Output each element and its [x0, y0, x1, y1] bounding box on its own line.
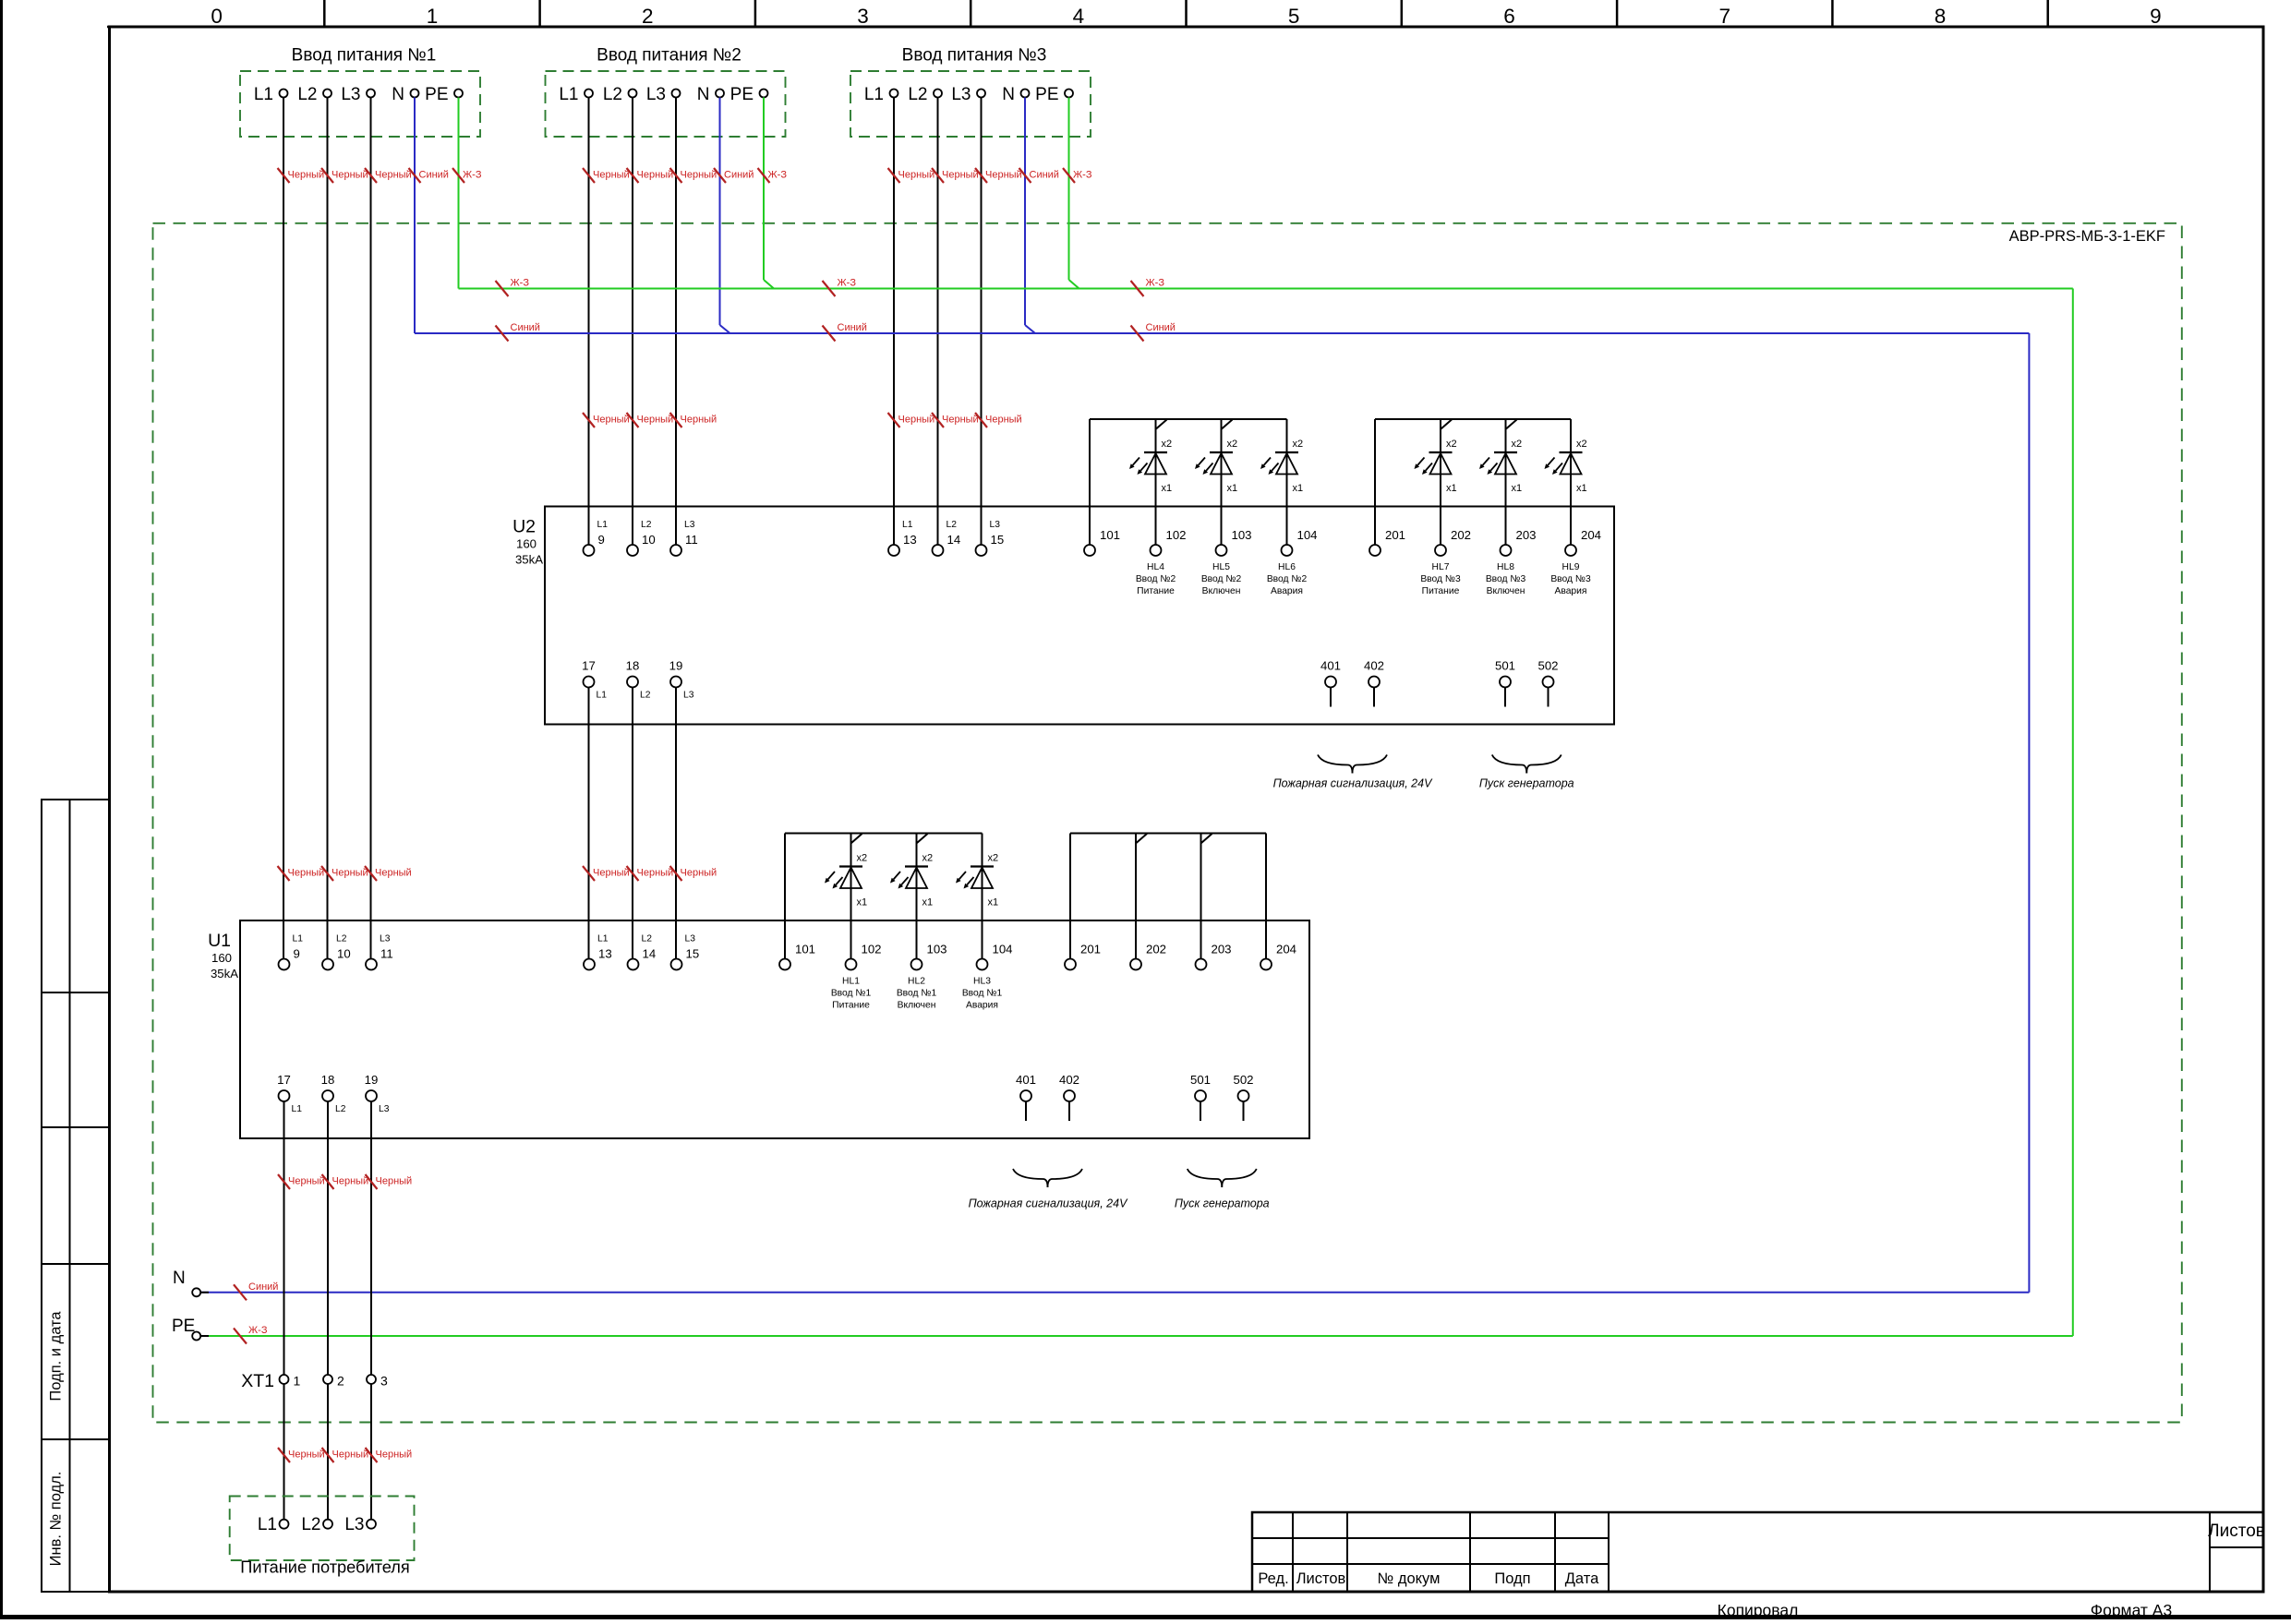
U1 pin 17 terminal	[279, 1090, 290, 1101]
node N terminal	[192, 1288, 200, 1296]
wire PE bus bottom horizontal (green)	[200, 1335, 2073, 1337]
U1 pin 10 terminal	[322, 959, 333, 970]
svg-text:Ж-З: Ж-З	[248, 1325, 268, 1336]
svg-text:PE: PE	[1035, 85, 1058, 104]
U1 pin 104 terminal	[977, 959, 988, 970]
U1 pin 501 terminal	[1195, 1090, 1206, 1101]
input 3 terminal PE	[1065, 90, 1073, 98]
U2 wire 203 to rail	[1505, 419, 1507, 545]
U2 pin 204 terminal	[1565, 545, 1576, 556]
left stamp label Подп. и дата	[48, 1311, 65, 1401]
U2 junction jog 103	[1222, 420, 1233, 429]
U2 pin 402 terminal	[1369, 677, 1380, 688]
svg-text:18: 18	[626, 659, 640, 673]
U2 pin 10 terminal	[627, 545, 638, 556]
U1 pin 13 terminal	[584, 959, 595, 970]
svg-text:ХТ1: ХТ1	[241, 1371, 274, 1391]
svg-text:Авария: Авария	[966, 1001, 998, 1011]
consumer terminal L3	[367, 1520, 376, 1529]
svg-text:Листов: Листов	[2208, 1522, 2265, 1541]
svg-text:14: 14	[947, 533, 961, 547]
svg-text:19: 19	[365, 1073, 379, 1087]
svg-text:U1: U1	[208, 931, 231, 951]
wire ввод1 L2 to U1:10	[327, 98, 329, 959]
svg-text:Черный: Черный	[332, 170, 368, 181]
U2 pin 14 terminal	[933, 545, 944, 556]
svg-text:13: 13	[598, 947, 612, 961]
U1 brace generator start terminals	[1188, 1169, 1223, 1187]
svg-text:5: 5	[1288, 5, 1300, 28]
svg-text:Черный: Черный	[681, 415, 717, 426]
LED HL3	[956, 834, 998, 908]
svg-text:Включен: Включен	[1202, 586, 1241, 596]
svg-text:Черный: Черный	[637, 415, 674, 426]
input 1 terminal L2	[323, 90, 332, 98]
svg-text:17: 17	[277, 1073, 291, 1087]
svg-text:Ж-З: Ж-З	[463, 170, 482, 181]
input group 3 dashed box	[850, 71, 1091, 137]
svg-text:102: 102	[862, 943, 882, 956]
U1 LED rail 201-204	[1070, 833, 1266, 835]
wire colour label Черный to consumer L2	[322, 1448, 334, 1462]
title block vertical divider Листов cell	[2209, 1512, 2211, 1592]
svg-text:Черный: Черный	[288, 1450, 325, 1461]
svg-text:L2: L2	[297, 85, 317, 104]
svg-text:502: 502	[1233, 1073, 1253, 1087]
svg-text:203: 203	[1516, 528, 1537, 542]
svg-text:4: 4	[1073, 5, 1085, 28]
svg-text:L3: L3	[685, 934, 696, 944]
svg-text:Ввод №2: Ввод №2	[1136, 574, 1176, 584]
svg-text:11: 11	[380, 947, 393, 961]
svg-text:HL2: HL2	[908, 977, 925, 987]
svg-text:Черный: Черный	[332, 1176, 369, 1187]
svg-text:Листов: Листов	[1296, 1570, 1346, 1587]
svg-text:Ввод №3: Ввод №3	[1550, 574, 1591, 584]
svg-text:Питание: Питание	[832, 1001, 870, 1011]
ruler tick 8	[1831, 0, 1834, 27]
U2 pin 19 terminal	[670, 677, 681, 688]
wire colour label Черный to consumer L1	[278, 1448, 290, 1462]
wire N ввод3 (blue) down	[1024, 98, 1026, 326]
svg-text:Синий: Синий	[838, 322, 867, 333]
input 2 terminal L1	[585, 90, 593, 98]
svg-text:Ввод №3: Ввод №3	[1486, 574, 1526, 584]
wire ввод2 L3 to U2:11	[675, 98, 677, 546]
wire colour label Черный ввод2 L2 (above U2)	[627, 413, 639, 427]
svg-text:402: 402	[1059, 1073, 1079, 1087]
svg-text:Включен: Включен	[1487, 586, 1525, 596]
svg-text:PE: PE	[425, 85, 448, 104]
U1 wire 202 to rail	[1135, 834, 1137, 959]
U2 pin 101 terminal	[1084, 545, 1095, 556]
svg-text:x1: x1	[1293, 483, 1304, 494]
svg-text:11: 11	[685, 533, 698, 547]
U1 junction jog 102	[851, 834, 862, 843]
wire N bus right vertical (blue)	[2028, 333, 2030, 1293]
svg-text:18: 18	[321, 1073, 335, 1087]
U1 pin 18 terminal	[322, 1090, 333, 1101]
wire U2:17 to U1:13	[588, 688, 590, 959]
wire PE bus top horizontal (green)	[459, 288, 2073, 290]
U1 pin 11 terminal	[366, 959, 377, 970]
svg-text:L1: L1	[292, 1104, 303, 1114]
U1 wire 203 to rail	[1200, 834, 1202, 959]
wire XT1:1 to consumer L1	[283, 1384, 285, 1520]
wire colour label Черный ввод3 L1	[888, 168, 900, 183]
svg-text:Ввод питания №2: Ввод питания №2	[597, 46, 742, 66]
wire colour label Черный ввод1 L2	[321, 168, 333, 183]
wire colour label Синий ввод3 N	[1019, 168, 1031, 183]
input 3 terminal L1	[890, 90, 898, 98]
svg-text:L2: L2	[641, 520, 652, 530]
svg-text:Включен: Включен	[898, 1001, 936, 1011]
ruler tick 6	[1401, 0, 1404, 27]
svg-text:L3: L3	[684, 520, 695, 530]
U2 pin 401 stub wire	[1330, 688, 1332, 707]
svg-text:Черный: Черный	[332, 868, 368, 879]
U2 wire 103 to rail	[1221, 419, 1223, 545]
title block horizontal divider right	[2210, 1546, 2263, 1548]
svg-text:x2: x2	[1293, 439, 1304, 450]
input 1 terminal PE	[454, 90, 463, 98]
svg-text:x1: x1	[922, 897, 934, 908]
svg-text:501: 501	[1190, 1073, 1211, 1087]
input 2 terminal N	[716, 90, 724, 98]
svg-text:x2: x2	[1576, 439, 1587, 450]
svg-text:0: 0	[211, 5, 223, 28]
left stamp cell divider 3	[42, 1263, 109, 1265]
U2 junction jog 203	[1506, 420, 1517, 429]
svg-text:Черный: Черный	[288, 1176, 325, 1187]
wire PE ввод2 (green) down	[763, 98, 765, 281]
U1 pin 501 stub wire	[1200, 1101, 1201, 1121]
svg-text:203: 203	[1212, 943, 1232, 956]
U2 pin 15 terminal	[976, 545, 987, 556]
U1 pin 102 terminal	[846, 959, 857, 970]
svg-text:Питание потребителя: Питание потребителя	[240, 1558, 409, 1577]
U1 wire 201 to rail	[1069, 834, 1071, 959]
LED HL8	[1479, 419, 1522, 494]
svg-text:N: N	[173, 1269, 186, 1288]
U2 pin 502 stub wire	[1548, 688, 1549, 707]
svg-text:Черный: Черный	[593, 170, 630, 181]
svg-text:17: 17	[582, 659, 596, 673]
svg-text:Черный: Черный	[375, 170, 412, 181]
svg-text:2: 2	[642, 5, 654, 28]
svg-text:Черный: Черный	[637, 170, 674, 181]
input 1 terminal L3	[367, 90, 375, 98]
svg-text:L2: L2	[336, 934, 347, 944]
node N stub	[200, 1292, 209, 1293]
input 2 terminal L3	[672, 90, 681, 98]
wire colour label Черный ввод2 L1	[583, 168, 595, 183]
svg-text:HL8: HL8	[1497, 562, 1514, 572]
LED HL1	[825, 834, 867, 908]
svg-text:HL6: HL6	[1278, 562, 1296, 572]
U2 LED rail 101-104	[1090, 418, 1287, 420]
svg-text:Дата: Дата	[1565, 1570, 1599, 1587]
wire colour label Ж-З ввод2 PE	[758, 168, 770, 183]
title block vertical divider 2	[1346, 1512, 1348, 1592]
U1 pin 203 terminal	[1196, 959, 1207, 970]
U2 wire 202 to rail	[1440, 419, 1441, 545]
svg-text:x1: x1	[857, 897, 868, 908]
U1 junction jog 202	[1137, 834, 1148, 843]
svg-text:Ввод питания №3: Ввод питания №3	[902, 46, 1047, 66]
svg-text:x1: x1	[1576, 483, 1587, 494]
svg-text:Черный: Черный	[898, 170, 935, 181]
ruler tick 5	[1185, 0, 1188, 27]
input 3 terminal N	[1021, 90, 1030, 98]
U1 pin 14 terminal	[628, 959, 639, 970]
svg-text:9: 9	[2150, 5, 2162, 28]
svg-text:101: 101	[1100, 528, 1120, 542]
wire U1:17 to XT1:1	[283, 1101, 285, 1375]
svg-text:Ввод №1: Ввод №1	[897, 989, 937, 999]
svg-text:502: 502	[1537, 659, 1558, 673]
U2 pin 501 stub wire	[1504, 688, 1506, 707]
junction N ввод3 jog	[1025, 325, 1035, 333]
LED HL5	[1195, 419, 1237, 494]
ATS controller U1 box	[240, 920, 1309, 1138]
wire N bus bottom horizontal (blue)	[200, 1292, 2029, 1293]
U1 brace fire alarm terminals	[1013, 1169, 1048, 1187]
svg-text:Ж-З: Ж-З	[768, 170, 788, 181]
LED HL2	[890, 834, 933, 908]
svg-text:401: 401	[1320, 659, 1341, 673]
svg-text:x2: x2	[1227, 439, 1238, 450]
svg-text:L1: L1	[254, 85, 273, 104]
svg-text:HL1: HL1	[842, 977, 860, 987]
svg-text:Черный: Черный	[898, 415, 935, 426]
page outer border left edge	[0, 0, 3, 1619]
input 2 terminal PE	[760, 90, 768, 98]
wire XT1:3 to consumer L3	[370, 1384, 372, 1520]
U1 pin 15 terminal	[671, 959, 682, 970]
svg-text:HL3: HL3	[973, 977, 991, 987]
consumer dashed box Питание потребителя	[230, 1497, 415, 1561]
U1 LED rail 101-104	[785, 833, 983, 835]
svg-text:x2: x2	[1512, 439, 1523, 450]
U2 pin 202 terminal	[1435, 545, 1446, 556]
svg-text:L2: L2	[335, 1104, 346, 1114]
wire colour label Черный ввод3 L3 (above U2)	[975, 413, 987, 427]
U1 pin 402 stub wire	[1068, 1101, 1070, 1121]
wire ввод2 L2 to U2:10	[632, 98, 633, 546]
U1 pin 502 terminal	[1238, 1090, 1249, 1101]
U2 pin 201 terminal	[1369, 545, 1381, 556]
junction PE ввод2 jog	[764, 280, 774, 289]
wire colour label Ж-З PE bus #1	[496, 281, 509, 296]
node PE stub	[200, 1335, 209, 1337]
svg-text:501: 501	[1495, 659, 1515, 673]
svg-text:Ред.: Ред.	[1258, 1570, 1288, 1587]
wire colour label Ж-З PE bus #2	[823, 281, 836, 296]
U2 junction jog 202	[1441, 420, 1453, 429]
svg-text:160: 160	[516, 537, 537, 551]
svg-text:Черный: Черный	[288, 170, 325, 181]
svg-text:Формат А3: Формат А3	[2091, 1601, 2172, 1619]
U2 wire 101 to rail	[1089, 419, 1091, 545]
left stamp cell divider 4	[42, 1438, 109, 1440]
svg-text:L3: L3	[341, 85, 360, 104]
wire colour label Черный ввод3 L3	[975, 168, 987, 183]
svg-text:N: N	[1002, 85, 1015, 104]
svg-text:L3: L3	[380, 934, 391, 944]
svg-text:Черный: Черный	[376, 1450, 413, 1461]
wire colour label Синий N bus #1	[496, 326, 509, 342]
wire colour label Черный ввод2 L3	[670, 168, 682, 183]
svg-text:Черный: Черный	[637, 868, 674, 879]
svg-text:Ввод №1: Ввод №1	[962, 989, 1003, 999]
U2 brace fire alarm terminals	[1318, 755, 1353, 774]
svg-text:N: N	[392, 85, 404, 104]
U1 pin 204 terminal	[1260, 959, 1272, 970]
ATS controller U2 box	[545, 507, 1614, 725]
svg-text:Пуск генератора: Пуск генератора	[1175, 1197, 1270, 1210]
svg-text:35kA: 35kA	[211, 967, 238, 980]
svg-text:Черный: Черный	[942, 170, 979, 181]
ruler tick 2	[538, 0, 541, 27]
U1 junction jog 203	[1201, 834, 1212, 843]
wire N ввод2 (blue) down	[719, 98, 721, 326]
svg-text:Авария: Авария	[1554, 586, 1586, 596]
svg-text:102: 102	[1166, 528, 1187, 542]
svg-text:L1: L1	[258, 1515, 277, 1534]
svg-text:204: 204	[1276, 943, 1296, 956]
svg-text:9: 9	[294, 947, 300, 961]
svg-text:Черный: Черный	[593, 415, 630, 426]
svg-text:Питание: Питание	[1137, 586, 1175, 596]
wire colour label Черный ввод1 L1 (above U1)	[278, 866, 290, 881]
wire colour label Черный ввод1 L2 (above U1)	[321, 866, 333, 881]
U2 pin 103 terminal	[1216, 545, 1227, 556]
node PE terminal	[192, 1332, 200, 1341]
wire colour label Черный U1:18 (below U1)	[322, 1174, 334, 1189]
svg-text:L1: L1	[864, 85, 884, 104]
svg-text:Синий: Синий	[248, 1281, 278, 1293]
title block vertical divider 5	[1608, 1512, 1610, 1592]
XT1 terminal 1	[280, 1375, 289, 1384]
svg-text:10: 10	[337, 947, 351, 961]
input 2 terminal L2	[629, 90, 637, 98]
svg-text:Синий: Синий	[724, 170, 754, 181]
ruler tick 9	[2046, 0, 2049, 27]
svg-text:401: 401	[1016, 1073, 1036, 1087]
svg-text:10: 10	[642, 533, 656, 547]
XT1 terminal 2	[323, 1375, 332, 1384]
svg-text:Пожарная сигнализация, 24V: Пожарная сигнализация, 24V	[1273, 777, 1434, 790]
svg-text:L1: L1	[597, 934, 609, 944]
wire colour label Ж-З PE bus #3	[1131, 281, 1144, 296]
svg-text:2: 2	[337, 1374, 344, 1389]
left stamp column middle divider	[69, 800, 71, 1592]
U1 pin 502 stub wire	[1243, 1101, 1245, 1121]
U2 pin 502 terminal	[1543, 677, 1554, 688]
svg-text:x2: x2	[1446, 439, 1457, 450]
svg-text:x2: x2	[857, 853, 868, 864]
title block horizontal divider 2	[1252, 1563, 1609, 1565]
ruler tick 4	[970, 0, 972, 27]
svg-text:Инв. № подл.: Инв. № подл.	[48, 1472, 65, 1567]
svg-text:L3: L3	[951, 85, 971, 104]
U1 pin 201 terminal	[1065, 959, 1076, 970]
U2 junction jog 102	[1156, 420, 1167, 429]
svg-text:x1: x1	[1227, 483, 1238, 494]
svg-text:Черный: Черный	[593, 868, 630, 879]
left stamp cell divider 1	[42, 992, 109, 993]
svg-text:Черный: Черный	[375, 868, 412, 879]
svg-text:L3: L3	[379, 1104, 390, 1114]
left stamp cell divider 2	[42, 1126, 109, 1128]
wire colour label Черный U1:19 (below U1)	[366, 1174, 378, 1189]
svg-text:PE: PE	[730, 85, 754, 104]
svg-text:9: 9	[598, 533, 605, 547]
wire colour label Черный U2:18 (above U1)	[627, 866, 639, 881]
svg-text:101: 101	[795, 943, 815, 956]
U1 pin 202 terminal	[1130, 959, 1141, 970]
input 1 terminal L1	[280, 90, 288, 98]
LED HL9	[1545, 419, 1587, 494]
wire colour label Черный ввод3 L2 (above U2)	[932, 413, 944, 427]
svg-text:L1: L1	[559, 85, 578, 104]
svg-text:Черный: Черный	[985, 170, 1022, 181]
left stamp column outer box	[42, 800, 109, 1592]
svg-text:Синий: Синий	[419, 170, 449, 181]
svg-text:Синий: Синий	[511, 322, 540, 333]
svg-text:Ж-З: Ж-З	[1073, 170, 1092, 181]
svg-text:3: 3	[857, 5, 869, 28]
svg-text:Ж-З: Ж-З	[838, 278, 857, 289]
wire U2:19 to U1:15	[675, 688, 677, 959]
wire colour label Черный ввод1 L3	[365, 168, 377, 183]
wire colour label Черный U2:19 (above U1)	[670, 866, 682, 881]
wire colour label Черный ввод1 L3 (above U1)	[365, 866, 377, 881]
svg-text:Ввод №1: Ввод №1	[831, 989, 872, 999]
wire colour label Черный ввод2 L2	[627, 168, 639, 183]
U1 pin 103 terminal	[911, 959, 922, 970]
wire N ввод1 (blue) down	[414, 98, 416, 334]
wire colour label Черный U1:17 (below U1)	[278, 1174, 290, 1189]
svg-text:L2: L2	[640, 691, 651, 701]
svg-text:6: 6	[1503, 5, 1515, 28]
page outer border bottom edge	[0, 1615, 2291, 1619]
svg-text:HL4: HL4	[1147, 562, 1164, 572]
LED HL6	[1260, 419, 1303, 494]
wire colour label Ж-З ввод3 PE	[1063, 168, 1075, 183]
input group 1 dashed box	[240, 71, 480, 137]
XT1 terminal 3	[367, 1375, 376, 1384]
svg-text:201: 201	[1080, 943, 1101, 956]
svg-text:L1: L1	[597, 691, 608, 701]
wire XT1:2 to consumer L2	[327, 1384, 329, 1520]
input 3 terminal L3	[977, 90, 985, 98]
svg-text:8: 8	[1935, 5, 1947, 28]
wire colour label Черный ввод3 L1 (above U2)	[888, 413, 900, 427]
svg-text:Ввод №2: Ввод №2	[1267, 574, 1308, 584]
wire colour label Черный to consumer L3	[366, 1448, 378, 1462]
wire N bus top horizontal (blue)	[415, 332, 2029, 334]
svg-text:x1: x1	[1446, 483, 1457, 494]
U1 junction jog 103	[917, 834, 928, 843]
wire ввод1 L1 to U1:9	[283, 98, 284, 959]
wire PE ввод1 (green) down	[458, 98, 460, 289]
U1 wire 104 to rail	[982, 834, 983, 959]
junction N ввод2 jog	[720, 325, 730, 333]
U2 pin 13 terminal	[888, 545, 899, 556]
U1 wire 102 to rail	[850, 834, 852, 959]
